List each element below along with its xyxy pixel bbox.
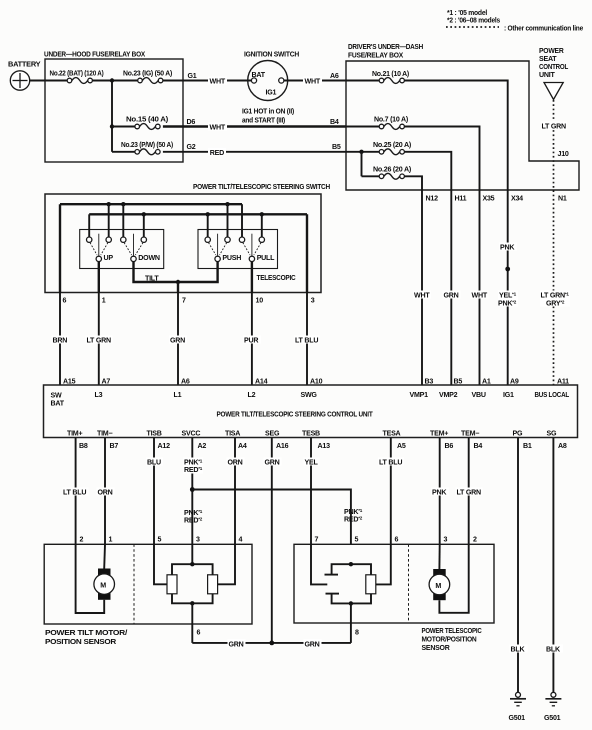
UP movable contact — [96, 256, 101, 261]
svg-text:A6: A6 — [181, 377, 190, 385]
svg-text:UNDER—HOOD FUSE/RELAY BOX: UNDER—HOOD FUSE/RELAY BOX — [44, 50, 145, 59]
wire SG to ground G501 (BLK) — [552, 438, 554, 693]
svg-text:N12: N12 — [426, 195, 439, 203]
svg-text:4: 4 — [239, 535, 243, 543]
wire common to pin7 — [177, 282, 179, 293]
svg-text:SVCC: SVCC — [182, 429, 201, 437]
svg-text:POWER TELESCOPIC: POWER TELESCOPIC — [422, 627, 482, 635]
svg-text:LT BLU: LT BLU — [379, 459, 402, 467]
label LT GRN — [541, 122, 567, 130]
telescopic sensor resistor — [366, 575, 376, 594]
svg-text:1: 1 — [102, 296, 106, 304]
telescopic sensor wiper — [325, 575, 340, 594]
node under-hood bus — [110, 78, 114, 82]
power tilt motor/position sensor box — [44, 544, 252, 624]
tilt sensor resistor right — [208, 575, 218, 594]
svg-text:A4: A4 — [238, 442, 247, 450]
svg-text:TESB: TESB — [302, 429, 320, 437]
wire A5 to telescopic pin6 (LT BLU) — [390, 438, 392, 545]
wire PULL to pin10 — [251, 262, 253, 293]
svg-text:A14: A14 — [255, 377, 268, 385]
svg-text:BAT: BAT — [252, 71, 266, 79]
svg-text:DOWN: DOWN — [138, 254, 160, 262]
svg-text:5: 5 — [355, 535, 359, 543]
label YEL*1 PNK*2 — [498, 291, 518, 307]
svg-text:10: 10 — [256, 296, 264, 304]
wire No.21 to X34 — [404, 81, 507, 191]
wire tilt pin5 to sensor — [154, 544, 167, 584]
svg-text:B7: B7 — [110, 442, 119, 450]
ignition terminal BAT — [251, 78, 256, 83]
svg-text:B4: B4 — [474, 442, 483, 450]
svg-text:3: 3 — [444, 535, 448, 543]
svg-text:PULL: PULL — [257, 254, 275, 262]
node bus1 push-right — [225, 202, 229, 206]
wire bus2 to pin3 — [306, 214, 308, 292]
svg-text:BLU: BLU — [147, 459, 161, 467]
svg-text:B4: B4 — [330, 118, 339, 126]
wire stub to PUSH left contact — [207, 214, 209, 237]
DOWN contact dashed throws — [124, 243, 132, 255]
svg-text:No.15 (40 A): No.15 (40 A) — [126, 115, 169, 124]
ground bus GRN wire — [192, 642, 351, 644]
node bus2 push-left — [206, 212, 210, 216]
wire B5 to fuse No.25 — [346, 151, 379, 153]
svg-text:A15: A15 — [63, 377, 76, 385]
wire pin6 to A15 (BRN) — [59, 293, 61, 386]
svg-text:IG1: IG1 — [503, 391, 514, 399]
ground G501 (SG) — [545, 692, 561, 706]
node tilt sensor top — [190, 562, 194, 566]
wire stub to PUSH right contact — [227, 204, 229, 237]
wire PG to ground G501 (BLK) — [517, 438, 519, 693]
svg-text:J10: J10 — [558, 150, 569, 158]
svg-text:TISB: TISB — [147, 429, 162, 437]
svg-text:TESA: TESA — [383, 429, 401, 437]
wire B6 to telescopic pin3 (PNK) — [439, 438, 441, 545]
label PNK*1 RED*1 — [183, 458, 203, 474]
wire No.7 to X35 — [404, 127, 479, 191]
dashed divider tilt box — [133, 544, 135, 624]
wire G2 branch to fuse — [112, 151, 137, 153]
svg-text:TIM+: TIM+ — [67, 429, 82, 437]
UP fixed contacts — [87, 237, 92, 242]
wire No.25 to H11 — [404, 152, 451, 190]
svg-text:SEG: SEG — [265, 429, 280, 437]
wire bus1 to pin6 — [59, 204, 61, 292]
svg-text:A5: A5 — [397, 442, 406, 450]
dotted LT GRN wire from power seat unit (other communication line) — [553, 100, 555, 385]
wire A16 SEG to ground bus (GRN) — [271, 438, 273, 643]
svg-text:2: 2 — [473, 535, 477, 543]
svg-text:SW: SW — [51, 392, 62, 400]
svg-text:RED: RED — [210, 149, 224, 157]
svg-text:ORN: ORN — [228, 459, 243, 467]
PULL fixed contacts — [239, 237, 244, 242]
svg-text:X34: X34 — [511, 195, 523, 203]
svg-text:M: M — [435, 582, 441, 590]
svg-text:CONTROL: CONTROL — [539, 63, 569, 71]
svg-text:B3: B3 — [425, 377, 434, 385]
svg-text:G501: G501 — [544, 714, 561, 722]
svg-text:GRN: GRN — [444, 292, 459, 300]
wire B7 to tilt pin1 (ORN) — [104, 438, 106, 545]
wire G2 to driver's box (RED) — [163, 151, 346, 153]
wire X35 to VBU (WHT) — [479, 190, 481, 385]
svg-text:3: 3 — [196, 535, 200, 543]
power seat connector triangle — [544, 83, 563, 100]
svg-text:SEAT: SEAT — [539, 55, 557, 63]
wire telescopic sensor pin8 to ground bus — [350, 603, 352, 643]
svg-text:B5: B5 — [454, 377, 463, 385]
node D6 branch — [110, 124, 114, 128]
power tilt/telescopic steering control unit — [44, 385, 578, 438]
svg-text:H11: H11 — [455, 195, 467, 203]
svg-text:A8: A8 — [558, 442, 567, 450]
svg-text:VMP1: VMP1 — [410, 391, 429, 399]
svg-text:B5: B5 — [332, 143, 341, 151]
node bus1 up-right — [107, 202, 111, 206]
wire D6 to driver's box (WHT) — [163, 125, 346, 127]
svg-text:LT BLU: LT BLU — [295, 337, 318, 345]
wire tilt pin3 to sensor wiper — [191, 544, 193, 564]
tilt sensor resistor left — [167, 575, 177, 594]
svg-text:A1: A1 — [482, 377, 491, 385]
wire fuse22 to node — [92, 80, 137, 82]
PULL movable contact — [249, 256, 254, 261]
label RED on G2 wire — [208, 148, 226, 156]
wire N12 to VMP1 (WHT) — [421, 190, 423, 385]
svg-text:A16: A16 — [276, 442, 289, 450]
svg-text:A10: A10 — [310, 377, 323, 385]
svg-text:PNK: PNK — [500, 244, 515, 252]
DOWN fixed contacts — [121, 237, 126, 242]
svg-text:DRIVER'S UNDER—DASH: DRIVER'S UNDER—DASH — [348, 42, 423, 51]
label GRN right — [304, 639, 322, 647]
svg-text:M: M — [100, 582, 106, 590]
tilt sensor bridge bottom — [172, 594, 213, 604]
svg-text:BATTERY: BATTERY — [8, 60, 41, 69]
svg-text:GRN: GRN — [265, 459, 280, 467]
under-hood vertical bus — [111, 81, 113, 152]
node splice on IG1 wire — [505, 267, 510, 272]
svg-text:3: 3 — [311, 296, 315, 304]
svg-text:and START (III): and START (III) — [242, 116, 286, 124]
wire stub to DOWN left contact — [122, 204, 124, 237]
wire A12 to tilt pin5 (BLU) — [153, 438, 155, 545]
svg-text:UP: UP — [104, 254, 114, 262]
switch bus wire 1 — [60, 203, 242, 205]
svg-text:L3: L3 — [95, 391, 103, 399]
svg-text:SG: SG — [547, 429, 557, 437]
svg-text:PUR: PUR — [244, 337, 258, 345]
svg-text:6: 6 — [63, 296, 67, 304]
svg-text:POWER: POWER — [539, 47, 564, 55]
wire ignition to driver's box (WHT) — [284, 80, 346, 82]
svg-text:L1: L1 — [174, 391, 182, 399]
tilt sensor bridge top — [172, 564, 213, 575]
svg-text:BLK: BLK — [511, 646, 526, 654]
svg-text:WHT: WHT — [414, 292, 430, 300]
wire B8 to tilt pin2 (LT BLU) — [75, 438, 77, 545]
svg-text:WHT: WHT — [305, 78, 321, 86]
svg-text:A12: A12 — [158, 442, 171, 450]
svg-text:G501: G501 — [509, 714, 526, 722]
svg-text:IGNITION SWITCH: IGNITION SWITCH — [244, 50, 299, 59]
svg-text:No.7 (10 A): No.7 (10 A) — [374, 115, 409, 124]
wire tilt pin4 to sensor — [218, 544, 235, 584]
wire A13 to telescopic pin7 (YEL) — [310, 438, 312, 545]
DOWN movable contact — [131, 256, 136, 261]
svg-text:1: 1 — [109, 535, 113, 543]
svg-text:LT GRN: LT GRN — [542, 123, 567, 131]
svg-text:No.26 (20 A): No.26 (20 A) — [373, 164, 412, 173]
svg-text:GRN: GRN — [305, 640, 320, 648]
node telescopic sensor top — [349, 562, 353, 566]
svg-text:VBU: VBU — [472, 391, 486, 399]
label LT GRN*1 GRY*2 — [540, 291, 570, 307]
wire B5 down branch — [361, 152, 363, 177]
svg-text:X35: X35 — [483, 195, 495, 203]
svg-text:A13: A13 — [318, 442, 331, 450]
svg-text:IG1 HOT in ON (II): IG1 HOT in ON (II) — [242, 107, 295, 115]
svg-text:TEM+: TEM+ — [430, 429, 448, 437]
svg-text:SENSOR: SENSOR — [422, 644, 450, 652]
svg-text:2: 2 — [80, 535, 84, 543]
svg-text:IG1: IG1 — [266, 89, 277, 97]
svg-text:No.22 (BAT) (120 A): No.22 (BAT) (120 A) — [50, 69, 105, 78]
node SEG joins ground bus — [269, 641, 274, 646]
wire wiper top to bridge — [332, 564, 371, 575]
wire stub to DOWN right contact — [143, 214, 145, 237]
dashed divider telescopic box — [408, 544, 410, 623]
UP contact dashed throws — [90, 243, 97, 255]
svg-text:PUSH: PUSH — [222, 254, 241, 262]
wire stub to UP left contact — [88, 214, 90, 237]
motor M2 telescopic — [429, 569, 450, 600]
wire pin7 to A6 (GRN) — [177, 293, 179, 386]
DOWN actuator — [133, 234, 135, 256]
svg-text:B1: B1 — [523, 442, 532, 450]
svg-text:5: 5 — [158, 535, 162, 543]
node bus2 pull-right — [260, 212, 264, 216]
svg-text:TELESCOPIC: TELESCOPIC — [257, 274, 296, 282]
svg-text:N1: N1 — [558, 195, 567, 203]
svg-text:BUS LOCAL: BUS LOCAL — [535, 391, 570, 399]
svg-text:WHT: WHT — [210, 124, 226, 132]
node SVCC branch — [190, 487, 195, 492]
PUSH fixed contacts — [205, 237, 210, 242]
ignition terminal IG1 — [279, 78, 284, 83]
svg-text:POSITION SENSOR: POSITION SENSOR — [45, 638, 116, 646]
wire telescopic pin3 to motor high side — [438, 544, 440, 569]
svg-text:6: 6 — [395, 535, 399, 543]
telescopic switch body — [198, 230, 278, 269]
telescopic sensor bridge bottom — [332, 594, 371, 604]
svg-text:LT BLU: LT BLU — [63, 489, 86, 497]
svg-text:YEL: YEL — [305, 459, 319, 467]
svg-text:B8: B8 — [79, 442, 88, 450]
wire A2 to tilt pin3 (PNK/RED) — [191, 438, 193, 545]
svg-text:WHT: WHT — [472, 292, 488, 300]
svg-text:8: 8 — [355, 628, 359, 636]
svg-text:ORN: ORN — [98, 489, 113, 497]
wire B4 to fuse No.7 — [346, 126, 379, 128]
switch bus wire 2 — [89, 213, 307, 215]
svg-text:LT GRN: LT GRN — [457, 489, 482, 497]
node tilt/tele common pin7 — [176, 280, 180, 284]
wire pin1 to A7 (LT GRN) — [98, 293, 100, 386]
svg-text:*2 : '06–08 models: *2 : '06–08 models — [447, 16, 500, 25]
node telescopic sensor bottom — [349, 601, 353, 605]
power telescopic motor/position sensor box — [294, 544, 494, 623]
wire node to fuse15 — [112, 126, 137, 128]
node bus1 down-left — [121, 202, 125, 206]
wire pin10 to A14 (PUR) — [251, 293, 253, 386]
svg-text:A2: A2 — [198, 442, 207, 450]
svg-text:G1: G1 — [188, 72, 197, 80]
wire telescopic pin7 to wiper — [311, 544, 327, 584]
svg-text:A6: A6 — [330, 72, 339, 80]
wire pin3 to A10 (LT BLU) — [306, 293, 308, 386]
wire tilt pin2 to motor low side — [76, 544, 105, 613]
svg-text:TIM−: TIM− — [97, 429, 112, 437]
svg-text:TEM−: TEM− — [461, 429, 479, 437]
label GRN left — [228, 639, 246, 647]
svg-text:POWER TILT/TELESCOPIC STEERING: POWER TILT/TELESCOPIC STEERING CONTROL U… — [217, 409, 374, 418]
ground G501 (PG) — [510, 692, 526, 706]
wire No.26 to N12 — [404, 176, 422, 190]
svg-text:7: 7 — [182, 296, 186, 304]
UP actuator — [98, 234, 100, 256]
legend dotted other-communication-line sample — [446, 26, 499, 28]
wire A4 to tilt pin4 (ORN) — [234, 438, 236, 545]
label WHT on G1 wire — [208, 77, 227, 85]
svg-text:D6: D6 — [187, 118, 196, 126]
svg-text:A9: A9 — [510, 377, 519, 385]
svg-text:A11: A11 — [557, 377, 569, 385]
svg-text:6: 6 — [197, 628, 201, 636]
wire tilt sensor pin6 to ground bus — [191, 603, 193, 643]
wire battery to under-hood box — [30, 80, 67, 82]
wire stub to PULL left contact — [241, 204, 243, 237]
PUSH actuator — [217, 234, 219, 256]
node bus2 down-right — [142, 212, 146, 216]
svg-text:FUSE/RELAY BOX: FUSE/RELAY BOX — [348, 51, 403, 60]
svg-text:BAT: BAT — [51, 400, 65, 408]
svg-text:L2: L2 — [248, 391, 256, 399]
svg-text:LT GRN: LT GRN — [87, 337, 112, 345]
svg-text:BLK: BLK — [546, 646, 561, 654]
wire stub to PULL right contact — [261, 214, 263, 237]
motor M1 tilt — [94, 569, 115, 600]
svg-text:VMP2: VMP2 — [439, 391, 458, 399]
svg-text:POWER TILT MOTOR/: POWER TILT MOTOR/ — [45, 629, 127, 637]
wire X34 to IG1 (PNK / YEL-PNK) — [507, 190, 509, 385]
svg-text:GRN: GRN — [170, 337, 185, 345]
PULL actuator — [251, 234, 253, 256]
wire stub to UP right contact — [108, 204, 110, 237]
svg-text:: Other communication line: : Other communication line — [504, 24, 583, 33]
node tilt sensor bottom — [190, 601, 194, 605]
wire DOWN to tilt common — [134, 262, 218, 282]
svg-text:A7: A7 — [102, 377, 111, 385]
tilt switch body — [80, 230, 164, 269]
label WHT — [303, 77, 322, 85]
svg-text:No.21 (10 A): No.21 (10 A) — [372, 69, 410, 78]
wire SVCC branch to telescopic pin5 — [192, 490, 351, 545]
wire UP to pin1 — [98, 262, 100, 293]
svg-text:PNK: PNK — [432, 489, 447, 497]
wire telescopic pin6 to resistor — [376, 544, 391, 584]
svg-text:POWER TILT/TELESCOPIC STEERING: POWER TILT/TELESCOPIC STEERING SWITCH — [193, 182, 330, 191]
svg-text:B6: B6 — [445, 442, 454, 450]
svg-text:No.23 (IG) (50 A): No.23 (IG) (50 A) — [123, 69, 173, 78]
wire B4 to telescopic pin2 (LT GRN) — [468, 438, 470, 545]
svg-text:BRN: BRN — [53, 337, 68, 345]
wire H11 to VMP2 (GRN) — [450, 190, 452, 385]
svg-text:No.23 (P/W) (50 A): No.23 (P/W) (50 A) — [121, 140, 174, 149]
svg-text:WHT: WHT — [210, 78, 226, 86]
svg-text:MOTOR/POSITION: MOTOR/POSITION — [422, 635, 477, 643]
svg-text:No.25 (20 A): No.25 (20 A) — [373, 140, 412, 149]
svg-text:SWG: SWG — [301, 391, 318, 399]
wire tilt pin1 to motor high side — [103, 544, 106, 568]
node B5 — [359, 150, 363, 154]
svg-text:G2: G2 — [187, 143, 196, 151]
wire G1 out of box — [163, 80, 252, 82]
svg-text:UNIT: UNIT — [539, 71, 555, 79]
svg-text:GRN: GRN — [229, 640, 244, 648]
wire telescopic pin2 to motor low side — [439, 544, 468, 613]
svg-text:7: 7 — [315, 535, 319, 543]
PUSH movable contact — [215, 256, 220, 261]
svg-text:PG: PG — [513, 429, 523, 437]
svg-text:TISA: TISA — [225, 429, 240, 437]
label WHT on D6 wire — [208, 123, 227, 131]
